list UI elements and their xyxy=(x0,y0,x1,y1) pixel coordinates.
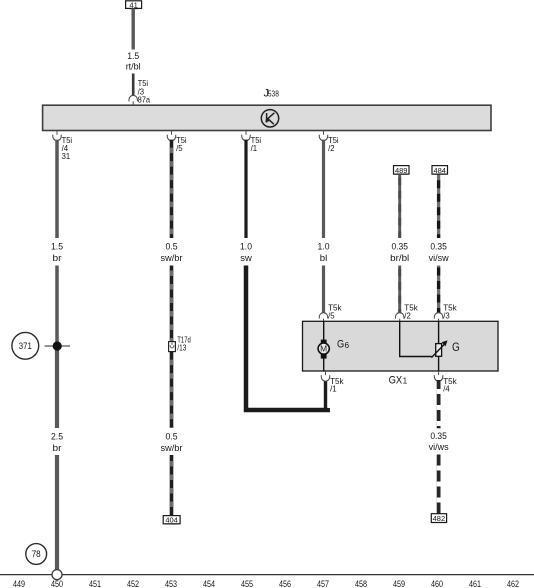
svg-text:0.5: 0.5 xyxy=(166,432,178,442)
svg-text:0.35: 0.35 xyxy=(430,431,447,441)
svg-text:br/bl: br/bl xyxy=(390,253,409,263)
svg-text:/3: /3 xyxy=(443,311,450,320)
svg-text:br: br xyxy=(53,443,62,453)
svg-text:G: G xyxy=(337,339,344,351)
svg-text:1.5: 1.5 xyxy=(51,242,63,252)
svg-text:456: 456 xyxy=(279,578,291,588)
svg-text:489: 489 xyxy=(395,166,408,175)
svg-text:1.0: 1.0 xyxy=(240,242,252,252)
svg-text:/2: /2 xyxy=(404,311,411,320)
svg-text:404: 404 xyxy=(165,516,178,525)
svg-text:455: 455 xyxy=(241,578,253,588)
svg-text:452: 452 xyxy=(127,578,139,588)
svg-text:0.5: 0.5 xyxy=(166,242,178,252)
svg-text:1.0: 1.0 xyxy=(318,242,330,252)
svg-text:449: 449 xyxy=(13,578,25,588)
svg-text:/1: /1 xyxy=(330,385,337,394)
svg-text:2.5: 2.5 xyxy=(51,432,63,442)
svg-text:GX: GX xyxy=(389,374,403,386)
svg-text:31: 31 xyxy=(62,152,71,161)
svg-text:sw/br: sw/br xyxy=(161,443,183,453)
svg-text:371: 371 xyxy=(19,341,32,351)
svg-text:451: 451 xyxy=(89,578,101,588)
svg-text:/5: /5 xyxy=(176,144,183,153)
svg-text:vi/sw: vi/sw xyxy=(429,253,450,263)
svg-text:rt/bl: rt/bl xyxy=(126,61,141,71)
svg-text:sw: sw xyxy=(240,253,252,263)
svg-text:1: 1 xyxy=(403,377,408,386)
svg-text:458: 458 xyxy=(355,578,367,588)
svg-text:sw/br: sw/br xyxy=(161,253,183,263)
svg-text:G: G xyxy=(452,340,460,354)
svg-text:538: 538 xyxy=(268,88,279,98)
svg-text:462: 462 xyxy=(507,578,519,588)
svg-text:bl: bl xyxy=(320,253,328,263)
svg-text:459: 459 xyxy=(393,578,405,588)
svg-text:br: br xyxy=(53,253,62,263)
svg-text:0.35: 0.35 xyxy=(430,242,447,252)
svg-text:78: 78 xyxy=(32,549,41,559)
svg-text:457: 457 xyxy=(317,578,329,588)
svg-text:0.35: 0.35 xyxy=(391,242,408,252)
svg-text:M: M xyxy=(320,345,327,354)
svg-text:461: 461 xyxy=(469,578,481,588)
svg-text:87a: 87a xyxy=(138,96,151,105)
svg-text:484: 484 xyxy=(433,166,446,175)
svg-text:/13: /13 xyxy=(177,344,186,353)
svg-text:41: 41 xyxy=(129,0,137,9)
svg-text:1.5: 1.5 xyxy=(127,51,139,61)
svg-text:6: 6 xyxy=(345,341,350,350)
svg-text:453: 453 xyxy=(165,578,177,588)
svg-text:/5: /5 xyxy=(328,311,335,320)
svg-text:450: 450 xyxy=(51,578,63,588)
svg-text:/4: /4 xyxy=(443,385,450,394)
svg-text:vi/ws: vi/ws xyxy=(429,442,449,452)
svg-text:/2: /2 xyxy=(328,144,335,153)
svg-text:482: 482 xyxy=(433,514,446,523)
svg-text:/1: /1 xyxy=(251,144,258,153)
svg-text:460: 460 xyxy=(431,578,443,588)
svg-text:454: 454 xyxy=(203,578,215,588)
